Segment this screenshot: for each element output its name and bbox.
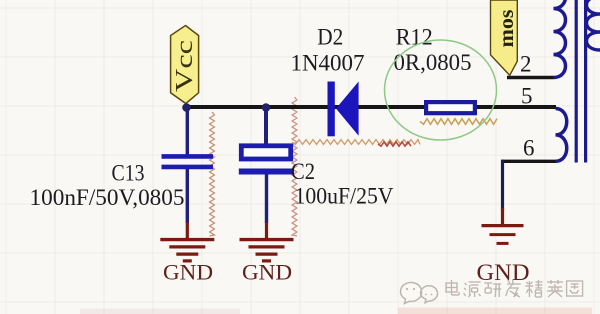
svg-text:100nF/50V,0805: 100nF/50V,0805 bbox=[30, 185, 185, 210]
resistor R12 bbox=[426, 102, 475, 113]
svg-text:Vcc: Vcc bbox=[172, 40, 198, 92]
wire pin 6 vertical drop bbox=[501, 160, 504, 210]
watermark wechat icon bbox=[401, 282, 438, 303]
wire main horizontal net Vcc to pin 5 bbox=[186, 105, 556, 109]
svg-text:GND: GND bbox=[477, 260, 530, 285]
highlight ellipse around R12 bbox=[385, 40, 497, 140]
svg-text:5: 5 bbox=[521, 84, 533, 109]
svg-text:C2: C2 bbox=[291, 159, 315, 184]
transformer primary winding lower bbox=[556, 109, 567, 162]
ground GND at C13 bbox=[160, 222, 214, 261]
ground GND at C2 bbox=[240, 222, 294, 261]
svg-text:C13: C13 bbox=[112, 161, 145, 186]
svg-text:GND: GND bbox=[242, 260, 292, 285]
wire pin 2 from mos port to transformer bbox=[507, 76, 554, 79]
svg-text:2: 2 bbox=[520, 52, 532, 77]
transformer core bar 2 bbox=[584, 0, 587, 163]
ERC marker squiggle vertical at C2 pin bbox=[292, 97, 297, 236]
svg-text:GND: GND bbox=[163, 260, 213, 285]
ERC marker squiggle vertical at C13 pin bbox=[210, 112, 215, 236]
power port mos bbox=[491, 0, 519, 75]
svg-text:0R,0805: 0R,0805 bbox=[394, 50, 472, 75]
watermark text 电源研发精英圈 bbox=[446, 280, 583, 297]
diode D2 cathode bar bbox=[328, 82, 335, 137]
transformer core bar 1 bbox=[575, 0, 578, 163]
svg-text:100uF/25V: 100uF/25V bbox=[295, 184, 394, 209]
svg-text:6: 6 bbox=[523, 136, 535, 161]
ERC marker squiggle horizontal under diode bbox=[292, 140, 420, 145]
ERC marker squiggle dark red segment bbox=[378, 142, 411, 146]
capacitor C13 bbox=[162, 107, 214, 223]
svg-text:D2: D2 bbox=[317, 25, 343, 50]
wire pin 6 horizontal bbox=[503, 160, 557, 163]
diode D2 triangle bbox=[336, 82, 359, 136]
junction node Vcc/C13 bbox=[182, 103, 191, 112]
capacitor C2 polarized bbox=[239, 107, 293, 223]
transformer primary winding upper bbox=[554, 0, 566, 78]
ERC marker squiggle horizontal under resistor bbox=[420, 119, 497, 125]
svg-text:mos: mos bbox=[496, 9, 518, 47]
bottom edge artifact strips bbox=[398, 308, 592, 314]
power port Vcc bbox=[171, 26, 199, 104]
ground GND at pin 6 bbox=[482, 208, 524, 243]
junction node C2 bbox=[262, 103, 271, 112]
svg-text:1N4007: 1N4007 bbox=[291, 51, 365, 76]
transformer secondary winding bbox=[587, 0, 600, 50]
